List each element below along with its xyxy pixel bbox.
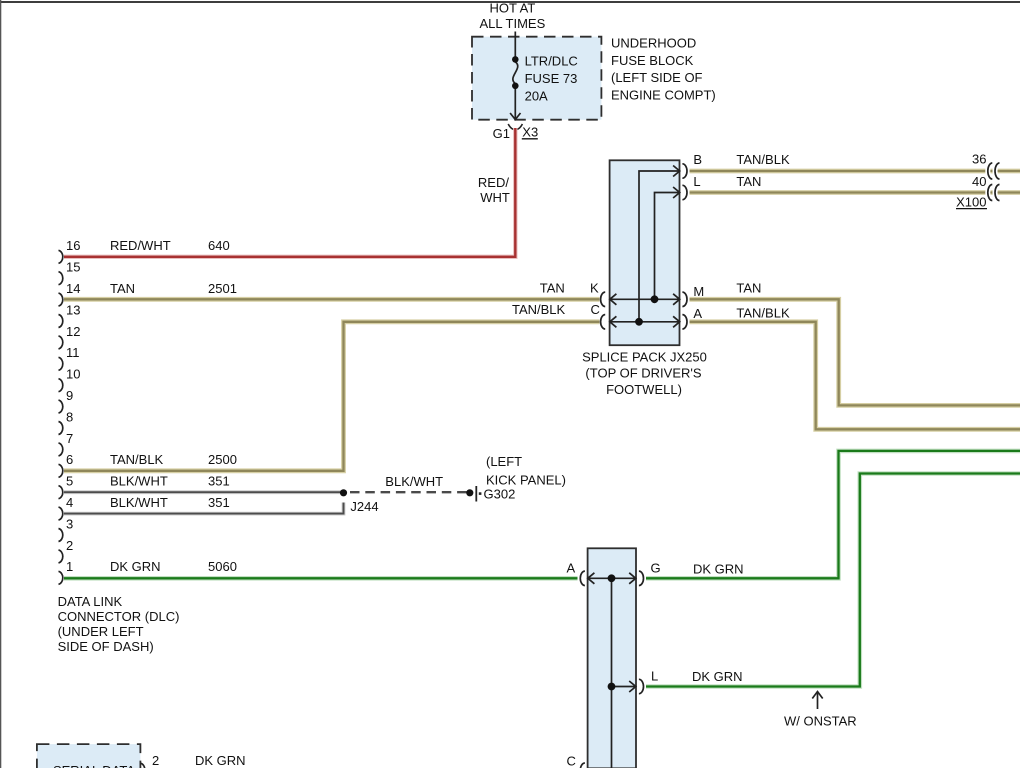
fuse F73 LTR/DLC 20A (510, 32, 520, 120)
svg-text:FUSE BLOCK: FUSE BLOCK (611, 53, 694, 68)
label BLK/WHT 351 pin 5 (110, 474, 230, 489)
svg-text:2501: 2501 (208, 281, 237, 296)
DLC pin 2 (59, 538, 74, 563)
svg-text:WHT: WHT (480, 190, 510, 205)
svg-text:FOOTWELL): FOOTWELL) (606, 382, 682, 397)
svg-text:C: C (591, 302, 600, 317)
DLC pin 3 (59, 516, 74, 541)
junction dot C-A (635, 318, 643, 326)
DLC pin 7 (59, 431, 74, 456)
label RED/WHT 640 pin 16 (110, 238, 230, 253)
svg-text:X100: X100 (956, 194, 986, 209)
splice pack internal wire C-A (610, 316, 680, 327)
ground G302 (466, 486, 515, 502)
svg-text:CONNECTOR (DLC): CONNECTOR (DLC) (58, 609, 180, 624)
splice pack internal branch to L (655, 187, 680, 299)
svg-text:A: A (693, 306, 702, 321)
svg-text:TAN: TAN (736, 174, 761, 189)
svg-text:LTR/DLC: LTR/DLC (525, 53, 578, 68)
svg-text:351: 351 (208, 495, 230, 510)
svg-text:2: 2 (66, 538, 73, 553)
svg-text:SERIAL DATA: SERIAL DATA (53, 763, 135, 768)
label LEFT KICK PANEL (486, 454, 566, 487)
svg-text:BLK/WHT: BLK/WHT (110, 495, 168, 510)
svg-text:5: 5 (66, 474, 73, 489)
svg-text:15: 15 (66, 260, 80, 275)
svg-text:A: A (567, 560, 576, 575)
label DK GRN 5060 pin 1 (110, 559, 237, 574)
DLC pin 14 (59, 281, 81, 306)
splice pack JX250 box (610, 160, 680, 345)
label SPLICE PACK JX250 (582, 350, 707, 397)
splice J244 (340, 489, 347, 496)
DLC pin 16 (59, 238, 81, 263)
DLC pin 6 (59, 452, 74, 477)
svg-text:TAN: TAN (110, 281, 135, 296)
svg-text:J244: J244 (350, 499, 378, 514)
DLC pin 1 (59, 559, 74, 584)
svg-text:SPLICE PACK JX250: SPLICE PACK JX250 (582, 350, 707, 365)
svg-text:2: 2 (152, 753, 159, 768)
wire DK GRN 5060 pin1 to A (64, 576, 578, 581)
label UNDERHOOD FUSE BLOCK (611, 36, 716, 103)
svg-text:L: L (651, 669, 658, 684)
svg-text:TAN: TAN (540, 281, 565, 296)
label fuse value (525, 53, 578, 103)
svg-text:KICK PANEL): KICK PANEL) (486, 472, 566, 487)
wire TAN/BLK from A to right edge (690, 322, 1020, 430)
splice pack internal wire K-M (610, 294, 680, 305)
svg-text:M: M (693, 284, 704, 299)
DLC pin 5 (59, 474, 74, 499)
DLC pin 13 (59, 302, 81, 327)
svg-text:TAN/BLK: TAN/BLK (110, 452, 164, 467)
svg-text:DATA LINK: DATA LINK (58, 594, 123, 609)
svg-text:DK GRN: DK GRN (693, 561, 744, 576)
wire TAN/BLK 2500 pin6 to C (64, 322, 600, 471)
svg-text:ALL TIMES: ALL TIMES (480, 16, 546, 31)
svg-text:14: 14 (66, 281, 80, 296)
DLC pin 11 (59, 345, 80, 370)
svg-text:9: 9 (66, 388, 73, 403)
svg-text:36: 36 (972, 152, 986, 167)
node HOT AT ALL TIMES (480, 1, 546, 32)
svg-text:G: G (651, 560, 661, 575)
splice pack 2 internal vertical (611, 578, 613, 768)
svg-text:L: L (693, 174, 700, 189)
svg-text:16: 16 (66, 238, 80, 253)
wire TAN from M to right edge (690, 299, 1020, 405)
svg-text:3: 3 (66, 516, 73, 531)
label DATA LINK CONNECTOR (58, 594, 180, 654)
splice pack 2 brackets (580, 571, 643, 768)
svg-text:BLK/WHT: BLK/WHT (385, 474, 443, 489)
svg-text:TAN/BLK: TAN/BLK (512, 302, 566, 317)
module box bottom left (dashed) (37, 744, 140, 768)
svg-text:X3: X3 (522, 125, 538, 140)
svg-text:1: 1 (66, 559, 73, 574)
wire DK GRN from G to right edge (646, 451, 1020, 578)
svg-text:UNDERHOOD: UNDERHOOD (611, 36, 696, 51)
svg-text:G1: G1 (493, 126, 510, 141)
underhood fuse block box (dashed) (472, 37, 601, 120)
svg-text:HOT AT: HOT AT (490, 1, 536, 16)
wire BLK/WHT 351 pin4 (64, 503, 344, 514)
junction dot A-G (608, 574, 616, 582)
svg-text:13: 13 (66, 302, 80, 317)
splice pack 2 internal wire A-G (588, 573, 636, 584)
svg-text:(TOP OF DRIVER'S: (TOP OF DRIVER'S (585, 366, 701, 381)
svg-text:6: 6 (66, 452, 73, 467)
label BLK/WHT 351 pin 4 (110, 495, 230, 510)
DLC pin 15 (59, 260, 81, 285)
svg-text:(LEFT SIDE OF: (LEFT SIDE OF (611, 70, 703, 85)
svg-text:11: 11 (66, 345, 80, 360)
svg-text:7: 7 (66, 431, 73, 446)
W/ ONSTAR arrow (812, 692, 822, 710)
svg-text:20A: 20A (525, 88, 548, 103)
svg-text:10: 10 (66, 367, 80, 382)
DLC pin 8 (59, 409, 74, 434)
svg-text:ENGINE COMPT): ENGINE COMPT) (611, 88, 716, 103)
svg-text:351: 351 (208, 474, 230, 489)
DLC pin 10 (59, 367, 81, 392)
pin 2 bracket bottom module (141, 763, 145, 768)
svg-text:40: 40 (972, 174, 986, 189)
junction dot K-M (651, 295, 659, 303)
splice pack pin brackets (601, 164, 687, 329)
svg-text:12: 12 (66, 324, 80, 339)
splice pack 2 box (588, 548, 636, 768)
svg-text:5060: 5060 (208, 559, 237, 574)
svg-text:FUSE 73: FUSE 73 (525, 71, 578, 86)
svg-text:4: 4 (66, 495, 73, 510)
svg-text:TAN: TAN (736, 280, 761, 295)
splice pack 2 branch to L (612, 681, 636, 692)
svg-text:K: K (590, 281, 599, 296)
pin letters splice pack 2 (567, 560, 661, 768)
connector X100 (956, 163, 1000, 209)
wire TAN from L to X100 (690, 190, 1020, 195)
DLC pin 9 (59, 388, 74, 413)
svg-text:2500: 2500 (208, 452, 237, 467)
label TAN/BLK 2500 pin 6 (110, 452, 237, 467)
svg-text:TAN/BLK: TAN/BLK (736, 152, 790, 167)
svg-text:DK GRN: DK GRN (110, 559, 161, 574)
DLC pin 4 (59, 495, 74, 520)
label TAN 2501 pin 14 (110, 281, 237, 296)
svg-text:B: B (693, 152, 702, 167)
wire TAN/BLK from B to X100 (690, 169, 1020, 174)
wire BLK/WHT dashed to G302 (350, 491, 467, 493)
connector G1 X3 (493, 124, 539, 141)
svg-text:DK GRN: DK GRN (195, 753, 246, 768)
svg-text:G302: G302 (484, 486, 516, 501)
wire BLK/WHT 351 pin5 (64, 490, 344, 494)
svg-text:C: C (567, 753, 576, 768)
wire TAN 2501 pin14 to K (64, 297, 600, 302)
junction dot L (608, 683, 616, 691)
svg-text:(UNDER LEFT: (UNDER LEFT (58, 624, 144, 639)
svg-text:8: 8 (66, 409, 73, 424)
pin letters splice pack (590, 152, 704, 321)
svg-text:RED/: RED/ (478, 175, 509, 190)
svg-text:RED/WHT: RED/WHT (110, 238, 171, 253)
wire DK GRN from L to right edge (646, 474, 1020, 687)
svg-text:DK GRN: DK GRN (692, 669, 743, 684)
svg-text:(LEFT: (LEFT (486, 454, 522, 469)
svg-text:TAN/BLK: TAN/BLK (736, 306, 790, 321)
svg-text:W/ ONSTAR: W/ ONSTAR (784, 713, 857, 728)
svg-text:SIDE OF DASH): SIDE OF DASH) (58, 639, 154, 654)
svg-text:640: 640 (208, 238, 230, 253)
label RED/WHT vertical wire (478, 175, 510, 205)
DLC pin 12 (59, 324, 81, 349)
svg-text:BLK/WHT: BLK/WHT (110, 474, 168, 489)
splice pack internal branch to B (639, 166, 680, 322)
wire RED/WHT 640 (64, 128, 515, 257)
